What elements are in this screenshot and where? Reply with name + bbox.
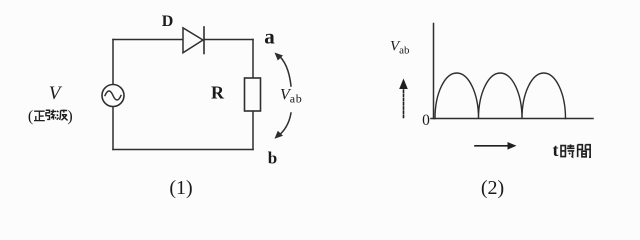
- svg-text:(: (: [28, 108, 33, 125]
- svg-text:a: a: [264, 25, 275, 49]
- svg-text:(2): (2): [481, 177, 504, 199]
- svg-text:t: t: [553, 140, 559, 160]
- diode D: [183, 27, 204, 54]
- svg-text:): ): [67, 108, 72, 125]
- wire: top segment (cathode side to node a): [204, 39, 253, 41]
- svg-text:Vab: Vab: [390, 39, 410, 57]
- resistor R: [245, 78, 261, 111]
- AC source V (sine generator): [102, 85, 124, 107]
- waveform: half-wave rectified sine: [435, 73, 566, 119]
- svg-text:(1): (1): [169, 177, 192, 199]
- arrow: t direction (right): [475, 142, 517, 150]
- svg-text:b: b: [268, 149, 277, 168]
- wire: left side (lower): [112, 107, 114, 150]
- axis: Vab (vertical): [433, 24, 435, 119]
- arrow: Vab direction (up, dashed stem): [399, 79, 408, 118]
- svg-text:Vab: Vab: [280, 87, 303, 106]
- wire: left side (upper): [112, 40, 114, 85]
- svg-text:0: 0: [422, 112, 430, 129]
- svg-text:D: D: [162, 13, 174, 30]
- arrow: Vab lower arc (toward b): [275, 113, 292, 139]
- wire: right side (resistor to node b): [252, 111, 254, 150]
- label t 時間: [553, 140, 591, 160]
- svg-text:R: R: [211, 83, 225, 103]
- wire: bottom side: [113, 149, 253, 151]
- svg-text:V: V: [49, 83, 63, 104]
- axis: t (horizontal): [431, 118, 593, 120]
- wire: top segment (anode side): [113, 39, 183, 41]
- wire: right side (node a to resistor): [252, 40, 254, 79]
- arrow: Vab upper arc (toward a): [275, 53, 292, 87]
- label (正弦波): [28, 108, 73, 125]
